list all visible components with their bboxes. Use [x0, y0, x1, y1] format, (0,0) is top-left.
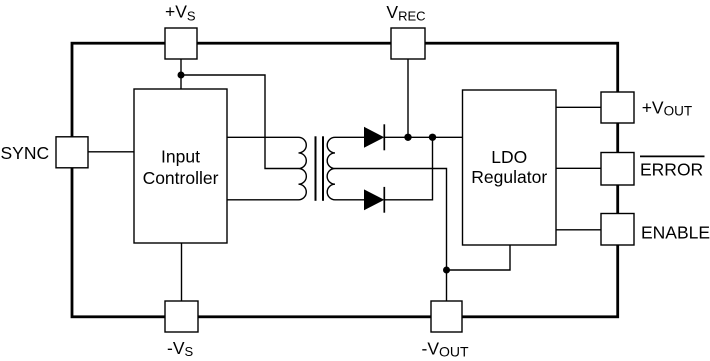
svg-text:Input: Input — [161, 147, 200, 167]
svg-text:LDO: LDO — [491, 147, 527, 167]
svg-text:ENABLE: ENABLE — [641, 222, 710, 242]
svg-text:Controller: Controller — [143, 168, 219, 188]
svg-text:SYNC: SYNC — [1, 143, 50, 163]
svg-text:Regulator: Regulator — [471, 167, 547, 187]
svg-text:ERROR: ERROR — [640, 159, 703, 179]
